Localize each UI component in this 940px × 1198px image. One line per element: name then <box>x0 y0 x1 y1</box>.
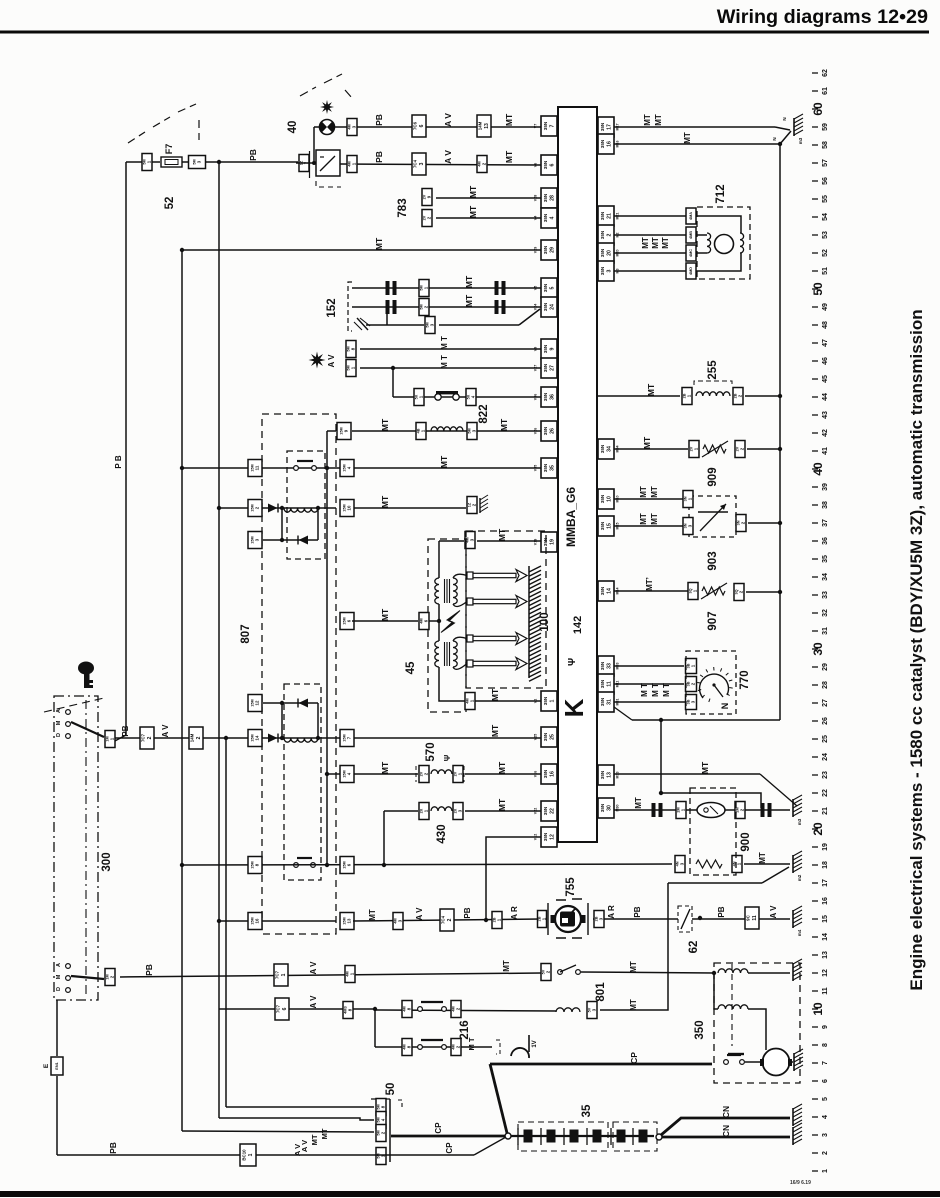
junction lamp/relay <box>312 161 316 165</box>
svg-text:35N: 35N <box>543 160 548 169</box>
connector 3N2 <box>736 515 746 532</box>
ground starter b <box>794 1049 803 1071</box>
wire row1010b <box>600 883 668 1010</box>
svg-text:35N: 35N <box>600 661 605 670</box>
wire coil return <box>439 667 541 701</box>
svg-text:35: 35 <box>822 555 829 563</box>
svg-text:2: 2 <box>447 918 453 921</box>
svg-text:35N: 35N <box>543 832 548 841</box>
junction V4 top <box>224 736 228 740</box>
svg-text:35N: 35N <box>600 770 605 779</box>
svg-text:12: 12 <box>822 969 829 977</box>
rail right <box>779 144 781 720</box>
svg-text:MT: MT <box>380 761 390 774</box>
junction fuse/V3 <box>217 160 221 164</box>
fuel pump 900 <box>697 803 725 818</box>
wire leg a1 <box>281 508 283 540</box>
connector 7C4-2 <box>440 909 454 931</box>
svg-text:18: 18 <box>822 861 829 869</box>
svg-text:11: 11 <box>607 681 613 687</box>
bus pin 35N 26 (left) <box>534 421 558 441</box>
connector 5M1 <box>142 154 152 171</box>
connector stack 50 <box>371 1099 390 1162</box>
svg-text:MT: MT <box>497 528 507 541</box>
relay contact 807a <box>294 461 317 470</box>
svg-text:47: 47 <box>822 339 829 347</box>
svg-text:16: 16 <box>607 141 613 147</box>
ground m4 <box>793 906 802 936</box>
wire 770 row c <box>614 701 686 703</box>
svg-text:7: 7 <box>822 1061 829 1065</box>
svg-text:A V: A V <box>443 150 453 164</box>
wire EN1 up <box>56 1000 58 1056</box>
primary 2 <box>435 641 439 667</box>
wire fuse row <box>393 396 541 398</box>
svg-text:Ψ: Ψ <box>443 754 452 761</box>
connector 2X1 <box>419 803 429 820</box>
svg-text:900: 900 <box>740 832 752 851</box>
svg-text:35N: 35N <box>543 302 548 311</box>
svg-text:10: 10 <box>346 505 351 510</box>
svg-text:14M: 14M <box>190 733 195 742</box>
svg-text:350: 350 <box>694 1020 706 1039</box>
connector 4M2b <box>451 1001 461 1018</box>
connector 5M3b <box>425 317 435 334</box>
connector 2B1b <box>492 912 502 929</box>
connector 770 b <box>686 677 697 692</box>
connector 4M2 <box>477 156 487 173</box>
wire row976 <box>120 973 541 977</box>
bracket 255 <box>694 381 732 385</box>
svg-text:2: 2 <box>607 233 613 236</box>
wire 903 row b <box>614 525 683 527</box>
junction leg a1 <box>280 538 284 542</box>
svg-text:19: 19 <box>822 843 829 851</box>
wire 152 vert <box>386 307 388 325</box>
svg-text:35N: 35N <box>543 363 548 372</box>
svg-text:35N: 35N <box>543 245 548 254</box>
wire row774 feed <box>327 773 340 775</box>
ground 152 <box>354 318 370 330</box>
connector 3N1 <box>683 491 693 508</box>
junction coil b2 <box>316 736 320 740</box>
svg-text:62: 62 <box>822 69 829 77</box>
arrow 907 <box>701 583 727 599</box>
connector 2V2b <box>419 766 429 783</box>
wire relay out <box>340 164 541 165</box>
connector 5V2 <box>541 964 551 981</box>
svg-text:m2: m2 <box>797 874 802 881</box>
svg-text:M T: M T <box>662 683 671 697</box>
bus pin 35N 35 (left) <box>534 458 558 478</box>
svg-text:2: 2 <box>822 1151 829 1155</box>
svg-text:CN: CN <box>721 1106 731 1118</box>
wire 216 row2 <box>375 1046 492 1048</box>
svg-text:m3: m3 <box>797 818 802 825</box>
wire row774b <box>465 773 541 775</box>
wire row621b <box>429 620 439 622</box>
svg-text:5: 5 <box>550 286 556 289</box>
svg-text:35N: 35N <box>600 803 605 812</box>
coil 712 right <box>740 233 744 253</box>
stepper motor 712 <box>715 235 734 254</box>
svg-text:35N: 35N <box>600 521 605 530</box>
svg-text:6: 6 <box>550 163 556 166</box>
wire row540 <box>263 539 318 541</box>
warning lamp <box>320 120 335 135</box>
svg-text:A V: A V <box>327 354 336 368</box>
bus pin 35N 6 (left) <box>534 155 558 175</box>
starter motor 350 <box>763 1049 790 1076</box>
svg-text:MT: MT <box>490 724 500 737</box>
connector 4MA <box>686 208 696 224</box>
junction 770 return <box>659 718 663 722</box>
svg-text:42: 42 <box>822 429 829 437</box>
connector 2X3 <box>453 803 463 820</box>
wire row811b <box>465 810 541 812</box>
wire 255 row b <box>745 395 780 397</box>
connector 4MB <box>686 227 696 243</box>
ECU connector bus 35N (MMBA_G6) <box>558 107 597 842</box>
wire 350 coil feed <box>714 973 718 1009</box>
svg-text:7C7: 7C7 <box>141 733 146 742</box>
svg-text:142: 142 <box>572 616 584 634</box>
wire feed 1107 <box>226 1106 374 1108</box>
wire 770 to 900 <box>661 793 761 808</box>
svg-text:3: 3 <box>822 1133 829 1137</box>
svg-text:26: 26 <box>822 717 829 725</box>
svg-text:4: 4 <box>550 216 556 219</box>
hatched wall 100 <box>529 566 541 681</box>
svg-text:MT: MT <box>651 237 660 249</box>
wire 35N to 4MD <box>614 270 686 272</box>
svg-text:31: 31 <box>822 627 829 635</box>
svg-text:35N: 35N <box>600 266 605 275</box>
bus pin 35N 16 (right) <box>598 134 620 154</box>
junction right rail top <box>778 142 782 146</box>
svg-text:38: 38 <box>822 501 829 509</box>
bus pin 35N 24 (left) <box>534 297 558 317</box>
svg-text:MT: MT <box>641 237 650 249</box>
connector 15M-4b <box>340 766 354 783</box>
svg-text:MT: MT <box>629 999 638 1011</box>
svg-text:MT: MT <box>504 113 514 126</box>
svg-text:MT: MT <box>490 688 500 701</box>
svg-text:M T: M T <box>467 1037 476 1050</box>
junction rail327 row865 <box>325 863 329 867</box>
svg-text:A R: A R <box>510 906 519 920</box>
connector 14M-2 <box>189 727 203 749</box>
connector 15M-13 <box>340 913 354 930</box>
connector 7C7-2 <box>140 727 154 749</box>
bus pin 35N 4 (left) <box>534 208 558 228</box>
wire 255 row a <box>597 395 680 397</box>
reluctor 770 <box>700 674 729 698</box>
svg-text:21: 21 <box>822 807 829 815</box>
connector 2B1 <box>682 388 692 405</box>
wire motor gnd <box>791 1061 793 1063</box>
svg-text:MT: MT <box>634 797 643 809</box>
svg-text:MT: MT <box>643 114 652 126</box>
svg-text:M T: M T <box>640 683 649 697</box>
svg-text:MT: MT <box>639 486 648 498</box>
svg-text:29: 29 <box>822 663 829 671</box>
bracket 152 <box>348 282 352 331</box>
svg-text:8: 8 <box>822 1043 829 1047</box>
connector pins 35 <box>518 1128 648 1145</box>
connector 4M2c <box>451 1039 461 1056</box>
primary 1 <box>435 578 439 604</box>
wire relay in <box>296 162 316 164</box>
svg-text:25: 25 <box>822 735 829 743</box>
svg-text:CP: CP <box>445 1142 454 1154</box>
svg-text:28: 28 <box>822 681 829 689</box>
ignition key <box>78 662 94 689</box>
svg-text:7: 7 <box>550 124 556 127</box>
dashed box 807 <box>262 414 336 934</box>
relay 40 box <box>316 150 340 176</box>
svg-text:14: 14 <box>607 588 613 594</box>
svg-text:27: 27 <box>822 699 829 707</box>
wire relay to lamp <box>313 127 315 163</box>
wire 909 row b <box>747 448 780 450</box>
wire row774a <box>354 773 418 775</box>
connector 2B2 <box>733 388 743 405</box>
connector 770 c <box>686 695 697 710</box>
wire coil primaries <box>438 604 440 641</box>
connector 4N1 <box>732 856 742 873</box>
wire row921c <box>593 918 790 920</box>
connector 15M-12 <box>248 695 262 712</box>
bus pin 35N 19 (left) <box>534 532 558 552</box>
svg-text:7C4: 7C4 <box>441 915 446 924</box>
svg-text:MT: MT <box>310 1134 319 1145</box>
wire CP main <box>490 1063 712 1066</box>
svg-text:MT: MT <box>374 237 384 250</box>
wire leg b2 <box>317 703 319 738</box>
stub 15M9 <box>327 430 336 432</box>
svg-text:10: 10 <box>607 496 613 502</box>
bus pin 35N 3 (right) <box>598 261 620 281</box>
bus pin 35N 5 (left) <box>534 278 558 298</box>
svg-text:15: 15 <box>822 915 829 923</box>
svg-text:37: 37 <box>822 519 829 527</box>
bus pin 35N 28 (left) <box>534 188 558 208</box>
svg-text:A: A <box>56 709 62 713</box>
svg-text:13: 13 <box>346 918 351 923</box>
wire to ground m2 <box>668 882 762 884</box>
junction 350 feed <box>712 971 716 975</box>
svg-text:16: 16 <box>822 897 829 905</box>
svg-text:M: M <box>56 974 62 979</box>
svg-text:4MB: 4MB <box>689 231 693 239</box>
wire row1157 <box>57 1154 474 1156</box>
svg-text:50: 50 <box>385 1083 397 1096</box>
svg-text:60: 60 <box>811 102 825 116</box>
bus pin 35N 21 (right) <box>598 206 620 226</box>
svg-text:2: 2 <box>196 736 202 739</box>
stack pin d <box>376 1148 386 1165</box>
connector 2B1c <box>537 911 546 928</box>
svg-text:4MC: 4MC <box>689 249 693 257</box>
connector 4M3c <box>393 913 403 930</box>
svg-text:13: 13 <box>607 772 613 778</box>
spark plug 2 <box>467 596 527 608</box>
rail V1 <box>125 162 127 735</box>
wire 350a gnd <box>748 972 790 974</box>
svg-text:22: 22 <box>550 808 556 814</box>
stack pin a <box>376 1099 386 1116</box>
svg-text:30: 30 <box>607 805 613 811</box>
junction coil b1 <box>280 736 284 740</box>
arrow 909 <box>702 441 728 457</box>
svg-text:35N: 35N <box>543 769 548 778</box>
wire row865 end <box>744 863 790 865</box>
svg-text:MT: MT <box>380 418 390 431</box>
svg-text:MT: MT <box>464 275 474 288</box>
rail V3 <box>218 162 220 1118</box>
bus pin 35N 7 (left) <box>534 116 558 136</box>
bus pin 35N 15 (right) <box>598 516 620 536</box>
svg-text:4MA: 4MA <box>689 212 693 220</box>
svg-text:D: D <box>56 733 62 737</box>
svg-text:MT: MT <box>497 761 507 774</box>
wire row972b <box>581 972 714 973</box>
svg-text:N: N <box>772 137 777 140</box>
rail V4 <box>225 738 227 1107</box>
ground m3 top <box>794 114 803 144</box>
wire 712 inner bottom <box>696 253 741 271</box>
wire 712 inner top <box>696 216 741 233</box>
svg-text:MT: MT <box>380 495 390 508</box>
connector 14M-13 <box>477 115 491 137</box>
coil 570 <box>431 770 452 774</box>
coil 801 <box>556 1008 580 1012</box>
wire CP out stack <box>391 1135 505 1138</box>
diode 807b <box>268 734 278 743</box>
node CP/35 <box>505 1133 511 1139</box>
dashed leader for 52 <box>128 104 199 143</box>
bus pin 35N 17 (right) <box>598 117 620 137</box>
junction V2 row865 <box>180 863 184 867</box>
wire 152 row1 <box>352 287 541 289</box>
svg-text:39: 39 <box>822 483 829 491</box>
svg-text:2: 2 <box>147 736 153 739</box>
capacitor pair <box>386 300 390 314</box>
svg-text:11: 11 <box>752 915 758 921</box>
svg-text:1: 1 <box>550 699 556 702</box>
wire row921a <box>219 920 336 922</box>
spark plug 1 <box>467 570 527 582</box>
wire CN upper <box>661 1118 790 1135</box>
connector 2V1 <box>689 441 699 458</box>
svg-text:16: 16 <box>254 918 259 923</box>
contact 350 <box>724 1055 745 1064</box>
svg-text:43: 43 <box>822 411 829 419</box>
svg-text:59: 59 <box>822 123 829 131</box>
connector 15M-14 <box>248 730 262 747</box>
svg-text:152: 152 <box>326 298 338 317</box>
ground CN b <box>793 1123 802 1145</box>
ground starter a <box>793 959 802 981</box>
dashed box 35a <box>518 1122 608 1151</box>
svg-text:D: D <box>56 987 62 991</box>
svg-text:48: 48 <box>822 321 829 329</box>
ruler scale 1-62 <box>811 69 829 1173</box>
coil 712 left <box>707 233 711 253</box>
svg-text:A V: A V <box>415 907 424 921</box>
svg-text:33: 33 <box>822 591 829 599</box>
junction rail327 row774 <box>325 772 329 776</box>
svg-text:801: 801 <box>595 982 607 1002</box>
svg-text:6: 6 <box>419 124 425 127</box>
dashed box 45 <box>428 539 466 712</box>
wire 822 coil row <box>352 430 541 432</box>
connector 15M-6 <box>340 613 354 630</box>
connector 2M2 <box>735 802 745 819</box>
svg-text:N: N <box>782 117 787 120</box>
wire 903 row c <box>748 522 780 524</box>
bus pin 35N 29 (left) <box>534 240 558 260</box>
wire row1010a <box>375 1010 556 1011</box>
svg-text:A V: A V <box>309 995 318 1009</box>
svg-text:35N: 35N <box>543 463 548 472</box>
dashed relay box 807a <box>287 451 325 559</box>
wire CP diag <box>490 1064 507 1133</box>
svg-text:MT: MT <box>504 150 514 163</box>
wire row865 <box>182 864 672 865</box>
svg-text:M T: M T <box>440 355 449 369</box>
svg-text:CP: CP <box>434 1122 443 1134</box>
svg-text:9: 9 <box>822 1025 829 1029</box>
svg-text:BC10: BC10 <box>242 1149 247 1161</box>
thermistor 907 <box>702 587 725 595</box>
junction leg b1 <box>280 701 284 705</box>
connector EN1 <box>51 1057 63 1075</box>
junction 35N12 branch <box>484 918 488 922</box>
svg-text:216: 216 <box>459 1020 471 1039</box>
svg-text:35N: 35N <box>600 139 605 148</box>
svg-text:54: 54 <box>822 213 829 221</box>
svg-text:57: 57 <box>822 159 829 167</box>
clip symbol 1V <box>511 1048 529 1058</box>
svg-text:822: 822 <box>478 404 490 423</box>
bus pin 35N 1 (left) <box>534 691 558 711</box>
svg-text:P B: P B <box>114 455 123 468</box>
bus pin 35N 36 (left) <box>534 387 558 407</box>
wire diag m3a <box>775 127 790 130</box>
capacitor pair <box>495 300 499 314</box>
svg-text:MT: MT <box>650 486 659 498</box>
svg-text:45: 45 <box>405 661 417 674</box>
wire 900 row <box>614 809 790 811</box>
connector 4M1a <box>347 156 357 173</box>
svg-text:14M: 14M <box>478 121 483 130</box>
connector 4M8b <box>402 1039 412 1056</box>
wire row468 <box>182 467 541 469</box>
svg-text:A: A <box>56 963 62 967</box>
connector 7C4-3 <box>412 153 426 175</box>
svg-text:770: 770 <box>739 670 751 689</box>
bus pin 35N 9 (left) <box>534 339 558 359</box>
svg-text:903: 903 <box>707 551 719 570</box>
svg-text:1: 1 <box>248 1153 254 1156</box>
wire 770 return drop <box>660 720 662 793</box>
wire row1009 feed <box>219 1008 375 1010</box>
svg-text:7C7: 7C7 <box>276 1004 281 1013</box>
wire fuse feed <box>126 161 160 163</box>
svg-text:12: 12 <box>550 834 556 840</box>
